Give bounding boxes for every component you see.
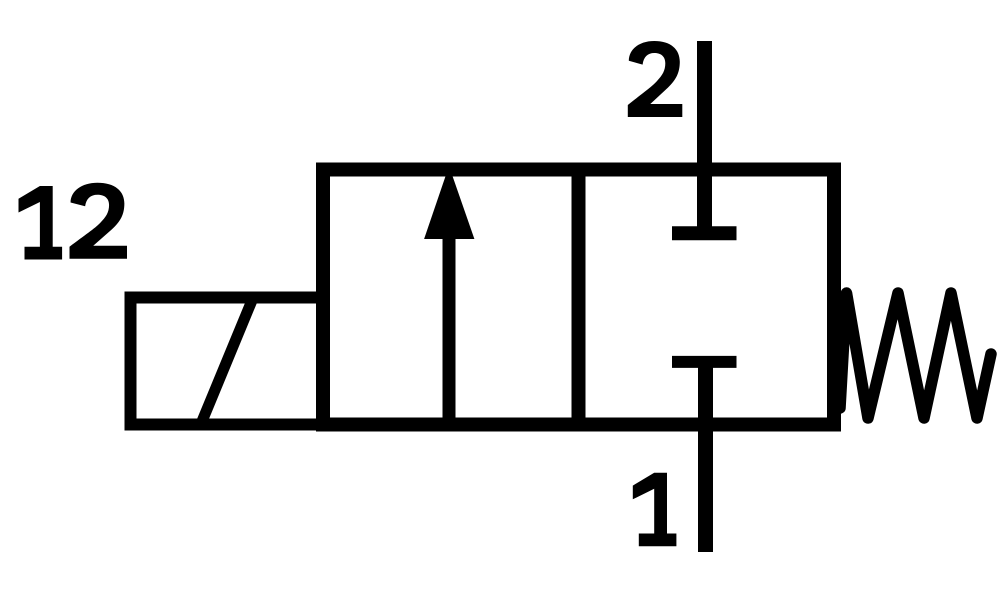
label 12 (pilot port) [19,183,127,260]
label 1 (inlet port) [633,473,677,547]
flow arrow head [424,166,474,239]
solenoid actuator box [131,298,323,425]
blocked port symbol top (crossbar) [672,226,737,240]
port 2 line [697,41,712,233]
port 1 line [698,362,713,552]
flow arrow shaft [443,235,456,425]
valve body outer box [323,170,834,425]
valve position divider [572,164,586,430]
label 2 (outlet port) [628,41,683,117]
return spring [840,293,991,418]
blocked port symbol bottom (crossbar) [672,356,737,368]
solenoid diagonal stroke [201,298,254,425]
